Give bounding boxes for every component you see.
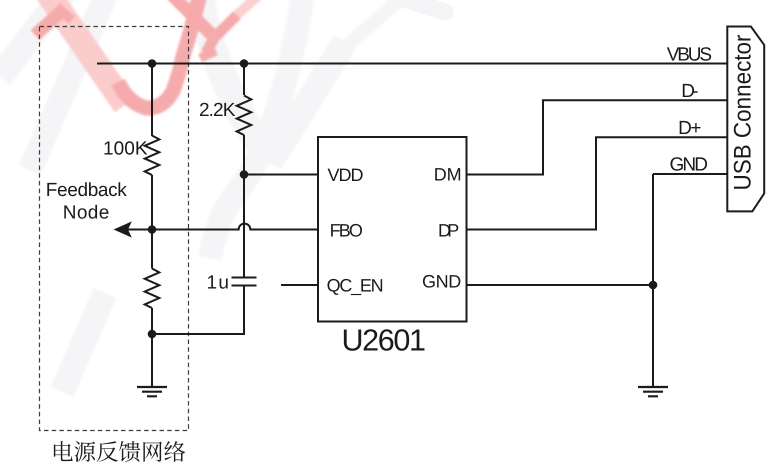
svg-text:FBO: FBO [330, 221, 363, 241]
svg-text:GND: GND [670, 154, 709, 175]
svg-text:U2601: U2601 [342, 324, 427, 358]
svg-text:DP: DP [438, 221, 459, 241]
svg-text:D+: D+ [678, 118, 701, 139]
svg-text:100K: 100K [103, 138, 148, 159]
svg-text:1u: 1u [207, 273, 230, 294]
svg-text:VBUS: VBUS [667, 44, 712, 65]
svg-text:Feedback: Feedback [46, 180, 128, 201]
svg-text:GND: GND [422, 272, 461, 292]
svg-text:USB Connector: USB Connector [730, 34, 757, 190]
svg-text:DM: DM [434, 164, 462, 184]
svg-text:2.2K: 2.2K [199, 100, 236, 121]
svg-text:Node: Node [63, 202, 110, 223]
svg-text:D-: D- [681, 81, 698, 102]
svg-text:VDD: VDD [328, 165, 364, 185]
svg-text:QC_EN: QC_EN [327, 276, 384, 296]
